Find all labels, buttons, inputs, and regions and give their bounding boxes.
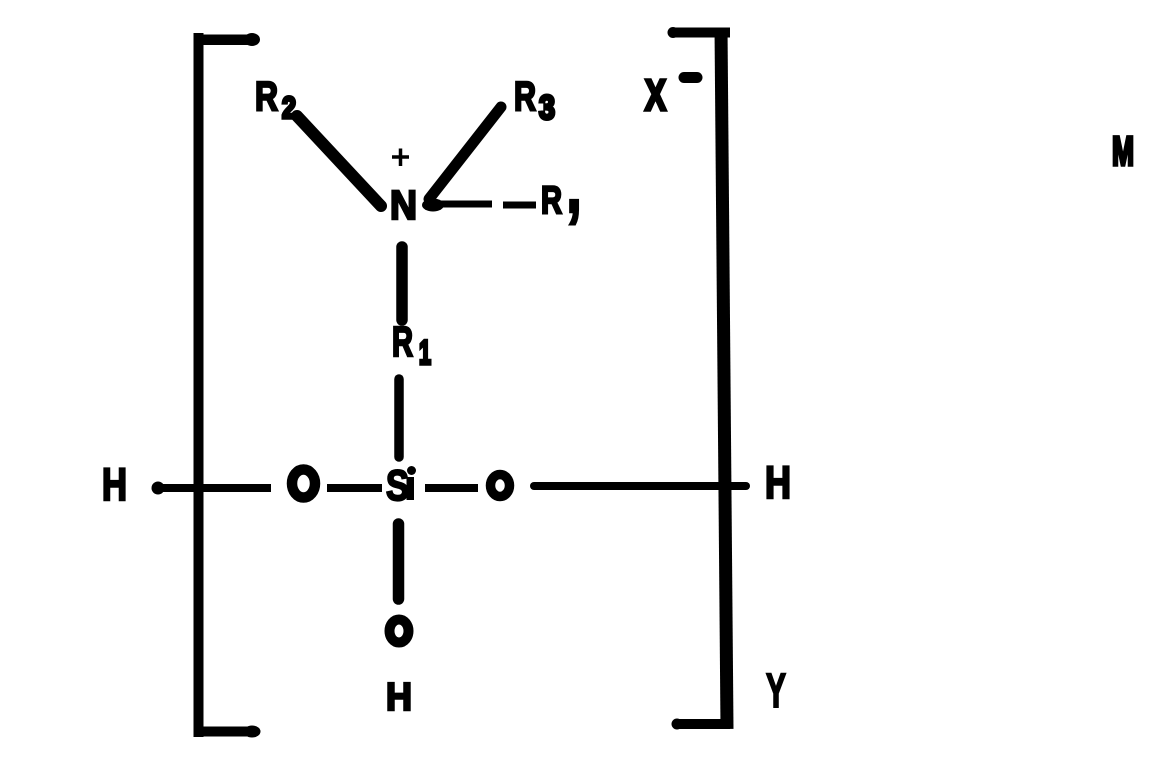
svg-text:N: N [390,182,417,228]
svg-text:R: R [255,73,278,119]
atom O right [491,475,510,497]
svg-text:Y: Y [766,665,786,718]
label R7 [541,140,582,229]
bond N-R7 [422,199,536,212]
svg-text:S: S [386,462,409,510]
bond H-O left [152,482,272,495]
svg-text:R: R [541,179,562,222]
charge X- [645,71,697,120]
bond R1-Si [394,379,404,457]
svg-text:3: 3 [539,89,555,127]
svg-text:R: R [514,73,536,119]
atom O bottom [390,620,409,643]
svg-text:H: H [765,457,791,508]
bond O-H right [534,482,746,490]
bond R2-N [297,116,381,206]
right bracket [668,27,734,730]
svg-text:H: H [102,459,127,510]
left bracket [194,33,261,738]
bond N-R1 [396,247,408,320]
svg-text:,: , [566,140,582,229]
svg-text:M: M [1112,128,1134,174]
svg-text:R: R [392,318,413,365]
svg-text:H: H [386,676,412,719]
svg-text:X: X [645,71,666,120]
label R3 [514,73,555,127]
atom O left [292,470,315,498]
plus charge [392,149,409,167]
bond O-Si [327,484,382,492]
bond N-R3 [429,107,501,199]
bond Si-O down [393,524,405,599]
label R2 [255,73,296,125]
atom Si [386,462,416,510]
svg-text:1: 1 [419,334,431,372]
bond Si-O right [425,484,478,492]
label R1 [392,318,431,372]
